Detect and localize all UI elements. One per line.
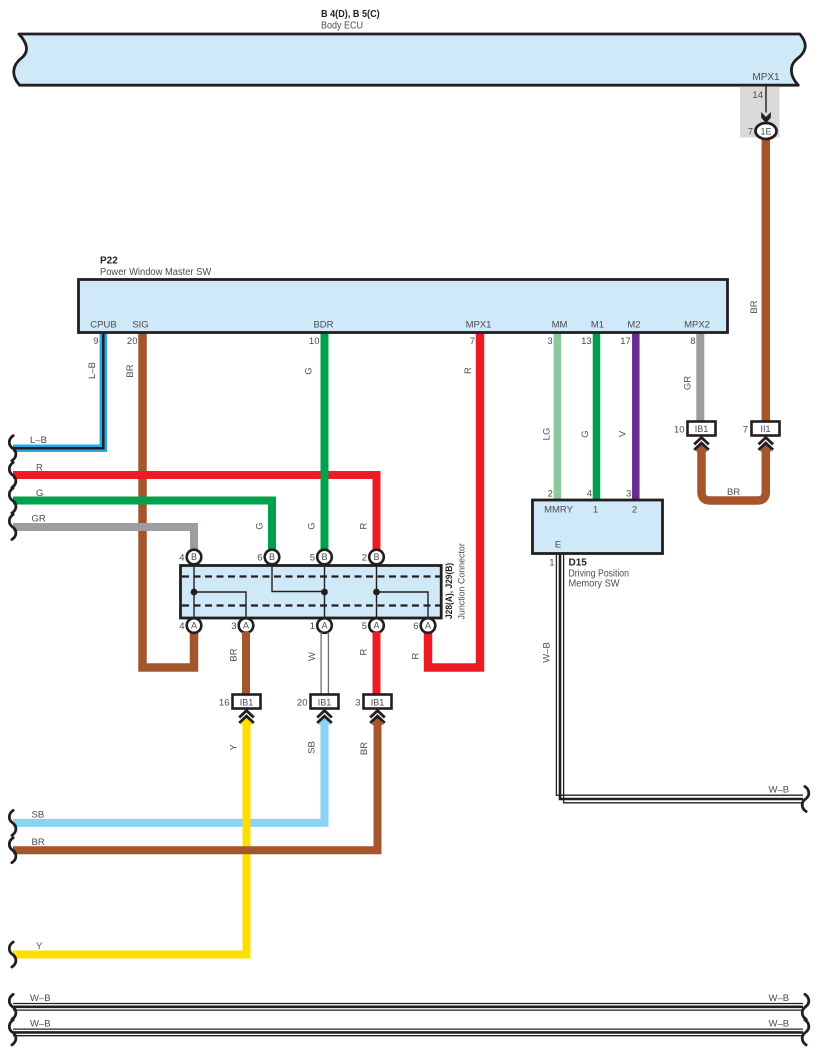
svg-text:A: A bbox=[321, 621, 327, 631]
svg-text:W: W bbox=[307, 652, 318, 661]
svg-text:Power Window Master SW: Power Window Master SW bbox=[100, 267, 212, 278]
svg-text:W–B: W–B bbox=[769, 785, 790, 796]
svg-text:BDR: BDR bbox=[313, 320, 333, 331]
svg-text:IB1: IB1 bbox=[371, 697, 385, 707]
svg-text:A: A bbox=[373, 621, 379, 631]
svg-text:BR: BR bbox=[229, 648, 240, 661]
svg-text:MPX1: MPX1 bbox=[466, 320, 492, 331]
svg-text:Body ECU: Body ECU bbox=[321, 21, 363, 32]
svg-text:W–B: W–B bbox=[769, 993, 790, 1004]
svg-text:8: 8 bbox=[690, 336, 695, 347]
svg-text:3: 3 bbox=[355, 698, 360, 709]
svg-text:GR: GR bbox=[683, 376, 694, 390]
svg-text:Junction Connector: Junction Connector bbox=[457, 543, 468, 619]
svg-text:MMRY: MMRY bbox=[544, 505, 574, 516]
svg-text:3: 3 bbox=[626, 489, 631, 500]
svg-text:20: 20 bbox=[297, 698, 308, 709]
svg-text:R: R bbox=[359, 522, 370, 529]
svg-text:G: G bbox=[36, 488, 43, 499]
svg-text:2: 2 bbox=[362, 553, 367, 564]
svg-text:MPX2: MPX2 bbox=[684, 320, 710, 331]
svg-text:BR: BR bbox=[32, 837, 45, 848]
svg-text:20: 20 bbox=[127, 336, 138, 347]
svg-text:B: B bbox=[269, 552, 275, 562]
svg-text:B: B bbox=[373, 552, 379, 562]
svg-text:P22: P22 bbox=[100, 256, 118, 267]
svg-text:6: 6 bbox=[413, 621, 418, 632]
svg-text:2: 2 bbox=[548, 489, 553, 500]
svg-text:G: G bbox=[580, 430, 591, 437]
svg-text:R: R bbox=[36, 462, 43, 473]
svg-text:L–B: L–B bbox=[87, 362, 98, 379]
svg-text:MPX1: MPX1 bbox=[752, 72, 780, 83]
svg-text:W–B: W–B bbox=[30, 993, 51, 1004]
svg-text:W–B: W–B bbox=[30, 1018, 51, 1029]
svg-text:4: 4 bbox=[587, 489, 592, 500]
svg-text:W–B: W–B bbox=[542, 642, 553, 663]
svg-text:1: 1 bbox=[549, 558, 554, 569]
svg-text:CPUB: CPUB bbox=[90, 320, 116, 331]
svg-text:B 4(D), B 5(C): B 4(D), B 5(C) bbox=[321, 9, 380, 20]
svg-text:IB1: IB1 bbox=[318, 697, 332, 707]
svg-text:D15: D15 bbox=[569, 558, 588, 569]
svg-text:14: 14 bbox=[752, 90, 763, 101]
svg-text:G: G bbox=[304, 367, 315, 374]
svg-text:1E: 1E bbox=[760, 126, 771, 136]
svg-text:10: 10 bbox=[309, 336, 320, 347]
svg-text:W–B: W–B bbox=[769, 1018, 790, 1029]
svg-text:BR: BR bbox=[727, 487, 740, 498]
svg-text:B: B bbox=[191, 552, 197, 562]
svg-text:IB1: IB1 bbox=[240, 697, 254, 707]
svg-text:9: 9 bbox=[93, 336, 98, 347]
svg-text:V: V bbox=[618, 430, 629, 437]
svg-text:M1: M1 bbox=[591, 320, 604, 331]
svg-text:R: R bbox=[359, 648, 370, 655]
svg-text:LG: LG bbox=[542, 428, 553, 441]
svg-text:17: 17 bbox=[620, 336, 631, 347]
svg-text:BR: BR bbox=[359, 742, 370, 755]
svg-text:4: 4 bbox=[179, 621, 184, 632]
svg-text:10: 10 bbox=[674, 425, 685, 436]
svg-text:6: 6 bbox=[257, 553, 262, 564]
svg-text:3: 3 bbox=[547, 336, 552, 347]
svg-text:J28(A), J29(B): J28(A), J29(B) bbox=[444, 563, 455, 619]
svg-text:2: 2 bbox=[632, 505, 637, 516]
svg-text:7: 7 bbox=[748, 127, 753, 138]
svg-text:MM: MM bbox=[552, 320, 568, 331]
svg-text:R: R bbox=[411, 652, 422, 659]
svg-text:BR: BR bbox=[749, 300, 760, 313]
svg-text:SB: SB bbox=[307, 741, 318, 754]
svg-text:Memory SW: Memory SW bbox=[569, 579, 621, 590]
svg-text:1: 1 bbox=[310, 621, 315, 632]
svg-text:B: B bbox=[321, 552, 327, 562]
svg-text:SB: SB bbox=[32, 810, 45, 821]
svg-text:L–B: L–B bbox=[30, 435, 47, 446]
svg-text:A: A bbox=[243, 621, 249, 631]
svg-text:5: 5 bbox=[310, 553, 315, 564]
svg-text:E: E bbox=[555, 540, 561, 551]
svg-text:7: 7 bbox=[743, 425, 748, 436]
svg-text:BR: BR bbox=[125, 364, 136, 377]
svg-text:Y: Y bbox=[229, 744, 240, 751]
svg-text:4: 4 bbox=[179, 553, 184, 564]
svg-text:A: A bbox=[191, 621, 197, 631]
svg-text:SIG: SIG bbox=[132, 320, 148, 331]
svg-text:7: 7 bbox=[470, 336, 475, 347]
svg-text:Y: Y bbox=[36, 941, 43, 952]
svg-text:G: G bbox=[307, 522, 318, 529]
svg-text:3: 3 bbox=[231, 621, 236, 632]
svg-text:16: 16 bbox=[219, 698, 230, 709]
svg-text:R: R bbox=[463, 367, 474, 374]
svg-text:IB1: IB1 bbox=[695, 424, 709, 434]
svg-text:G: G bbox=[255, 522, 266, 529]
svg-text:GR: GR bbox=[32, 513, 46, 524]
svg-text:1: 1 bbox=[593, 505, 598, 516]
svg-text:M2: M2 bbox=[627, 320, 640, 331]
svg-text:13: 13 bbox=[581, 336, 592, 347]
svg-text:5: 5 bbox=[362, 621, 367, 632]
svg-text:II1: II1 bbox=[760, 424, 770, 434]
svg-text:A: A bbox=[425, 621, 431, 631]
